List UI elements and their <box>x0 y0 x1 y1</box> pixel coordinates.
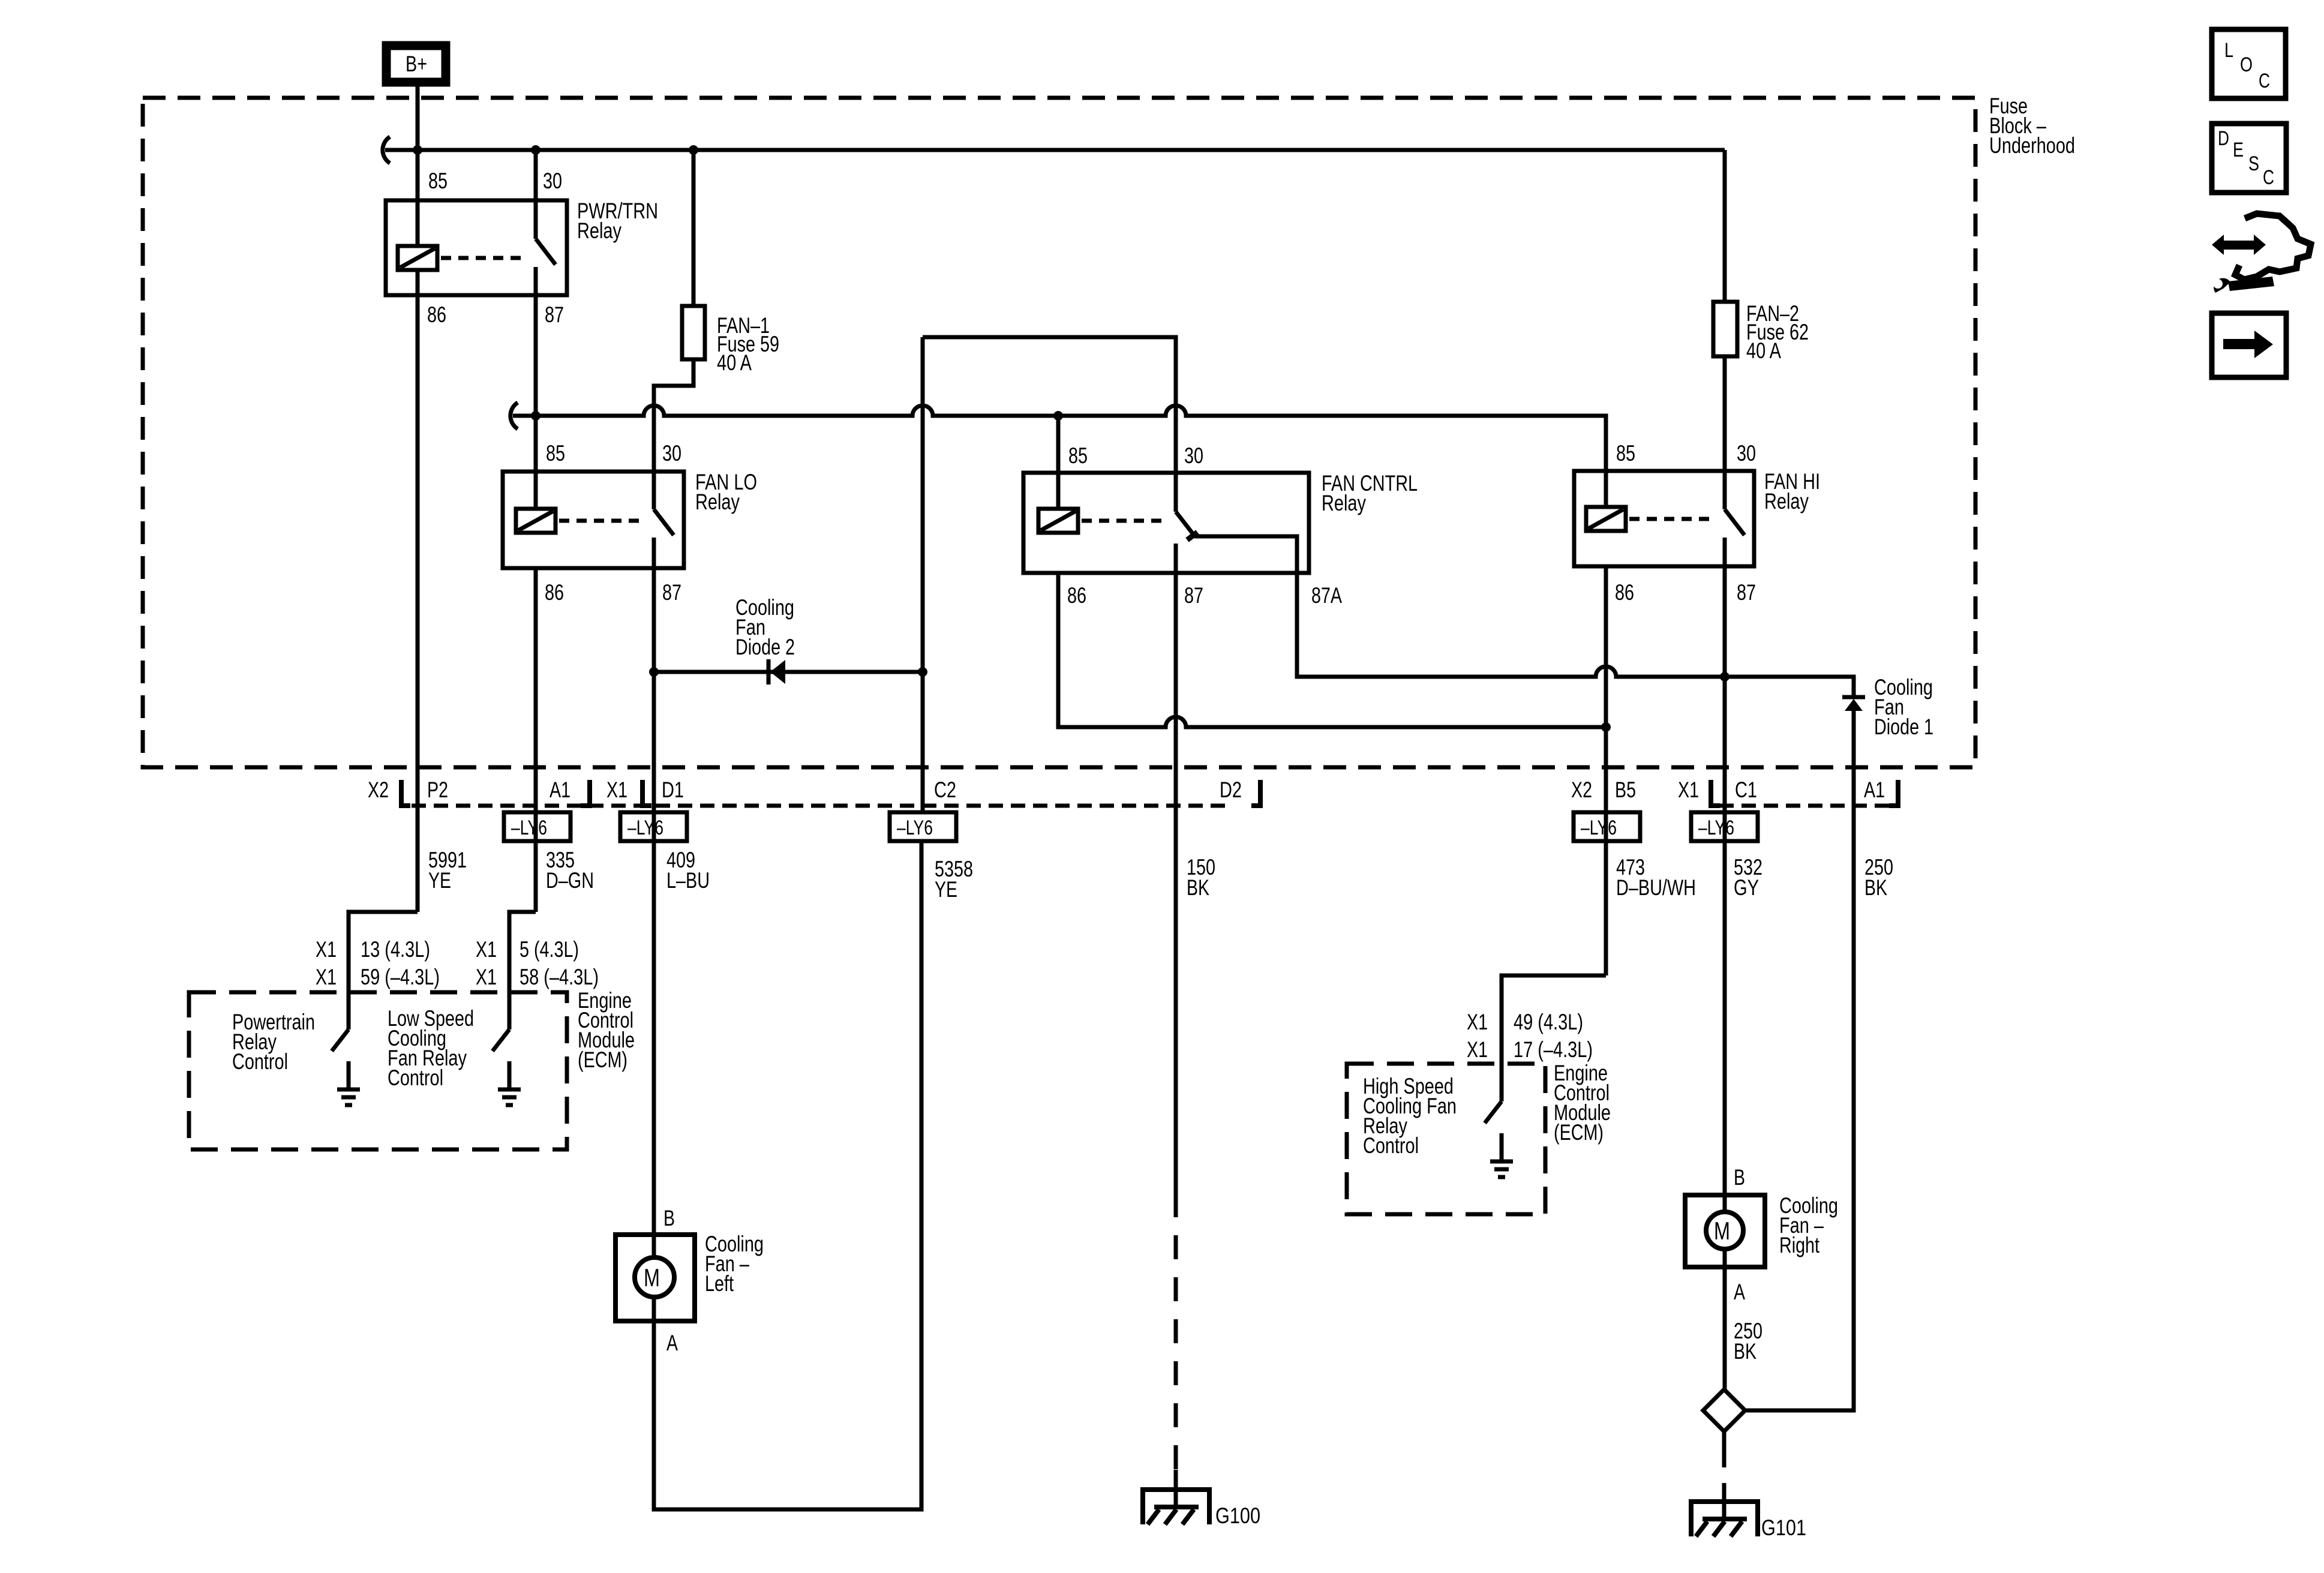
svg-text:A1: A1 <box>1864 778 1885 802</box>
fuse FAN-1 Fuse 59 40A body <box>682 306 705 359</box>
Low Speed Cooling Fan Relay Control label <box>388 1006 474 1090</box>
node bus1/PWR-TRN 30 junction <box>531 145 541 155</box>
svg-text:Control: Control <box>388 1065 443 1090</box>
PWR/TRN Relay name label <box>577 199 658 243</box>
icon diagnostic car with arrow and wrench <box>2212 214 2311 293</box>
node bus2/FAN LO 85 junction <box>531 411 541 421</box>
Engine Control Module (ECM) label right <box>1554 1061 1611 1145</box>
B+ battery feed box <box>386 46 446 82</box>
svg-text:85: 85 <box>546 441 565 466</box>
wire inside right motor box <box>1723 1195 1727 1267</box>
wire FAN CNTRL 87A contact to diode 1 (via right drop) <box>1194 536 1854 695</box>
PWR/TRN relay coil <box>398 246 437 270</box>
powertrain relay control switch blade <box>332 1029 349 1051</box>
FAN LO coil-to-switch dashed actuator <box>559 519 646 523</box>
svg-text:17 (–4.3L): 17 (–4.3L) <box>1514 1037 1593 1062</box>
icon LOC box <box>2212 29 2286 98</box>
ground (low speed fan relay control) <box>498 1089 521 1105</box>
wire PWR/TRN pin87 lower stub <box>534 267 538 295</box>
node FAN HI 87 / 87A-diode1 line junction <box>1720 672 1730 682</box>
svg-text:Left: Left <box>705 1271 734 1296</box>
svg-text:Relay: Relay <box>1764 489 1809 514</box>
wire splice stub <box>1722 1431 1727 1442</box>
svg-text:86: 86 <box>1615 580 1634 605</box>
FAN LO Relay name label <box>695 470 757 514</box>
svg-text:X1: X1 <box>316 937 337 962</box>
svg-text:A: A <box>666 1331 678 1355</box>
motor M1 circle <box>635 1257 674 1297</box>
relay K3 FAN HI Relay box <box>1574 471 1754 566</box>
icon DESC box <box>2212 124 2286 193</box>
wire FAN HI pin87 lower stub <box>1723 538 1727 566</box>
wire 150 BK dashed part to G100 <box>1174 1193 1178 1471</box>
svg-text:BK: BK <box>1187 875 1209 900</box>
svg-text:L: L <box>2224 39 2233 62</box>
svg-text:Relay: Relay <box>1322 491 1366 515</box>
FAN CNTRL switch blade <box>1176 512 1194 536</box>
wire FAN CNTRL pin85 from bus2 into coil <box>1056 416 1061 509</box>
fuse FAN-2 label <box>1746 301 1809 363</box>
fuse FAN-2 Fuse 62 40A body <box>1713 302 1737 356</box>
Cooling Fan Diode 2 label <box>735 595 795 659</box>
bus2 off-page break symbol <box>511 403 518 429</box>
PWR/TRN coil-to-switch dashed actuator <box>441 256 528 260</box>
wire FAN HI pin87 down to Cooling Fan Right (532 GY) <box>1723 566 1727 1195</box>
svg-text:D–GN: D–GN <box>546 868 594 893</box>
PWR/TRN switch blade <box>536 239 556 265</box>
wire FAN LO pin87 lower stub <box>652 538 656 568</box>
wire stub into G101 <box>1722 1483 1727 1520</box>
svg-text:–LY6: –LY6 <box>1581 816 1617 839</box>
svg-text:C: C <box>2259 70 2270 92</box>
powertrain control ground stub <box>347 1061 351 1089</box>
svg-text:–LY6: –LY6 <box>627 816 663 839</box>
wire FAN LO pin85 into coil <box>534 472 538 509</box>
svg-text:S: S <box>2248 152 2259 175</box>
svg-text:B5: B5 <box>1615 778 1636 802</box>
wire label 5358 YE <box>935 857 973 902</box>
svg-text:30: 30 <box>662 441 681 466</box>
wire FAN LO pin87 down to Cooling Fan Left (409 L-BU) <box>652 568 656 1235</box>
connector bracket A1 right <box>1889 780 1898 806</box>
low speed control switch blade <box>493 1029 509 1051</box>
svg-text:O: O <box>2240 53 2253 76</box>
svg-text:YE: YE <box>935 877 957 902</box>
relay K2 FAN CNTRL Relay box <box>1023 473 1309 573</box>
ground (high speed fan relay control) <box>1490 1161 1513 1177</box>
Fuse Block - Underhood dashed box <box>143 98 1975 767</box>
wire FAN-2 fuse to FAN HI 30 <box>1723 356 1727 471</box>
connector bracket X1/C1 <box>1711 780 1720 806</box>
node bus2/FAN CNTRL 85 junction <box>1053 411 1063 421</box>
wire 335 D-GN jog to Low Speed control <box>509 912 536 1029</box>
Cooling Fan Left label <box>705 1232 764 1296</box>
FAN LO switch blade <box>654 509 674 535</box>
wire dashed to G101 <box>1722 1442 1727 1484</box>
wire FAN HI pin85 into coil <box>1604 471 1608 507</box>
wire FAN-1 fuse to FAN LO 30 with jog <box>654 359 693 472</box>
svg-text:GY: GY <box>1734 875 1759 900</box>
svg-text:Right: Right <box>1779 1233 1820 1257</box>
svg-text:87: 87 <box>1737 580 1756 605</box>
FAN HI switch blade <box>1725 509 1744 535</box>
svg-text:85: 85 <box>1068 443 1088 468</box>
svg-text:–LY6: –LY6 <box>1698 816 1734 839</box>
svg-text:87: 87 <box>1184 583 1203 608</box>
FAN CNTRL Relay name label <box>1322 471 1418 515</box>
icon forward arrow box <box>2212 313 2286 377</box>
svg-text:B: B <box>1734 1165 1745 1190</box>
wire 150 BK stub into G100 <box>1174 1470 1178 1508</box>
wire FAN-2 feed from bus1 <box>1723 150 1727 302</box>
ECM dashed box (low speed) <box>189 992 567 1149</box>
wire FAN HI 86 jog to high speed control switch <box>1502 975 1606 1101</box>
svg-text:BK: BK <box>1864 875 1887 900</box>
wire PWR/TRN pin86 coil to ECM (5991 YE) upper part <box>416 270 420 912</box>
wire FAN CNTRL pin87 lower stub down to D2 (150 BK) <box>1174 544 1178 1193</box>
svg-text:X1: X1 <box>476 965 497 989</box>
svg-text:A: A <box>1734 1280 1745 1304</box>
wire label 473 D-BU/WH <box>1616 855 1696 900</box>
svg-text:A1: A1 <box>550 778 571 802</box>
svg-text:X1: X1 <box>1467 1010 1488 1034</box>
wire FAN LO pin30 stub <box>652 472 656 509</box>
svg-text:D1: D1 <box>662 778 684 802</box>
ECM dashed box (high speed) <box>1347 1064 1545 1214</box>
node bus1/B+ junction <box>413 145 422 155</box>
svg-text:59 (–4.3L): 59 (–4.3L) <box>361 965 440 989</box>
motor M2 circle <box>1706 1212 1743 1249</box>
Cooling Fan Diode 1 symbol <box>1842 697 1865 711</box>
wire B+ down to bus1 <box>416 86 420 150</box>
Engine Control Module (ECM) label left <box>578 988 635 1072</box>
FAN CNTRL coil-to-switch dashed actuator <box>1082 519 1169 523</box>
high speed control ground stub <box>1500 1133 1504 1161</box>
Fuse Block - Underhood label <box>1989 94 2075 158</box>
svg-text:86: 86 <box>427 302 446 327</box>
svg-text:M: M <box>644 1263 660 1292</box>
svg-text:30: 30 <box>543 169 562 193</box>
FAN CNTRL switch blade contact tick <box>1187 532 1197 540</box>
svg-text:D2: D2 <box>1220 778 1242 802</box>
svg-text:C2: C2 <box>934 778 956 802</box>
wire PWR/TRN pin85 from bus1 into coil <box>416 150 420 246</box>
Powertrain Relay Control label <box>232 1010 315 1074</box>
fuse FAN-1 label <box>717 313 779 375</box>
svg-text:40 A: 40 A <box>717 350 752 375</box>
svg-text:C: C <box>2263 166 2274 189</box>
svg-text:D: D <box>2218 127 2229 150</box>
svg-text:58 (–4.3L): 58 (–4.3L) <box>520 965 599 989</box>
harness code box -LY6 (A1/335) <box>504 812 571 841</box>
motor M1 Cooling Fan Left box <box>615 1235 695 1321</box>
svg-text:–LY6: –LY6 <box>511 816 547 839</box>
ground G100 symbol <box>1143 1490 1209 1524</box>
wire FAN LO pin86 down to ECM (335 D-GN) <box>534 568 538 912</box>
fuse FAN-1 wire from bus1 <box>692 150 696 306</box>
svg-text:87A: 87A <box>1311 583 1342 608</box>
svg-text:(ECM): (ECM) <box>578 1047 627 1072</box>
Cooling Fan Diode 1 label <box>1874 675 1933 739</box>
wire right fan A down to splice <box>1723 1267 1727 1389</box>
FAN HI Relay name label <box>1764 469 1820 514</box>
high speed control switch blade <box>1485 1101 1502 1123</box>
FAN LO relay coil <box>516 509 556 533</box>
node FAN LO 87 / diode 2 junction <box>649 667 659 677</box>
harness code box -LY6 (C1/532) <box>1691 812 1758 841</box>
svg-text:X1: X1 <box>1678 778 1699 802</box>
connector bracket A1 <box>581 780 590 806</box>
wire PWR/TRN pin30 stub <box>534 150 538 239</box>
ground G101 symbol <box>1691 1502 1758 1536</box>
svg-text:Diode 2: Diode 2 <box>735 635 795 659</box>
Cooling Fan Right label <box>1779 1193 1838 1257</box>
svg-text:B: B <box>663 1206 675 1230</box>
wire loop top to FAN CNTRL 30 <box>923 337 1176 473</box>
wire left fan A to 5358 YE return <box>654 841 921 1509</box>
Cooling Fan Diode 2 symbol <box>768 659 785 685</box>
wire label 335 D-GN <box>546 848 594 893</box>
splice diamond <box>1703 1389 1745 1431</box>
svg-text:B+: B+ <box>406 52 427 76</box>
FAN HI coil-to-switch dashed actuator <box>1629 517 1716 521</box>
Cooling Fan Diode 2 wire <box>654 670 923 674</box>
svg-text:86: 86 <box>1067 583 1086 608</box>
FAN HI relay coil <box>1586 507 1626 531</box>
harness code box -LY6 (D1/409) <box>620 812 687 841</box>
FAN CNTRL relay coil <box>1038 509 1078 533</box>
svg-text:X1: X1 <box>1467 1037 1488 1062</box>
wire label 532 GY <box>1734 855 1762 900</box>
svg-text:BK: BK <box>1734 1339 1756 1364</box>
node FAN CNTRL 86 line / FAN HI 86 junction <box>1601 722 1611 732</box>
wire label 250 BK (right fan A) <box>1734 1319 1762 1364</box>
svg-text:E: E <box>2233 139 2244 161</box>
svg-text:86: 86 <box>545 580 564 605</box>
svg-text:X1: X1 <box>606 778 627 802</box>
svg-text:30: 30 <box>1737 441 1756 466</box>
svg-text:(ECM): (ECM) <box>1554 1120 1604 1145</box>
wire diode 1 down to splice (250 BK) <box>1746 711 1854 1410</box>
wire inside left motor box <box>652 1235 656 1321</box>
wire label 150 BK <box>1187 855 1215 900</box>
svg-text:X1: X1 <box>316 965 337 989</box>
svg-text:85: 85 <box>428 169 448 193</box>
wire label 250 BK (A1) <box>1864 855 1893 900</box>
wire PWR/TRN pin87 down to bus2 and on to FAN LO 85 <box>534 295 538 472</box>
svg-text:87: 87 <box>545 302 564 327</box>
svg-text:30: 30 <box>1184 443 1203 468</box>
svg-text:Control: Control <box>1363 1133 1419 1158</box>
connector row dashed line segment B <box>1719 804 1890 808</box>
svg-text:Relay: Relay <box>577 218 621 243</box>
wire 5358 YE down from diode2 junction to C2 connector <box>921 672 925 812</box>
wire FAN CNTRL pin86 down and right to FAN HI 86 node <box>1058 573 1606 727</box>
bus1 B+ feed rail <box>383 137 1725 163</box>
bus2 relay feed rail with hops <box>511 403 1606 471</box>
wire label 409 L-BU <box>666 848 710 893</box>
svg-text:87: 87 <box>662 580 681 605</box>
low speed control ground stub <box>508 1061 512 1089</box>
relay U1 PWR/TRN Relay box <box>386 200 567 295</box>
wire FAN CNTRL pin30 stub <box>1174 473 1178 512</box>
svg-text:Underhood: Underhood <box>1989 133 2075 158</box>
relay K1 FAN LO Relay box <box>503 472 684 568</box>
svg-text:40 A: 40 A <box>1746 338 1781 363</box>
svg-text:X1: X1 <box>476 937 497 962</box>
svg-text:X2: X2 <box>1571 778 1592 802</box>
svg-text:13 (4.3L): 13 (4.3L) <box>361 937 430 962</box>
svg-text:85: 85 <box>1616 441 1635 466</box>
svg-text:X2: X2 <box>368 778 389 802</box>
wire 150 BK solid part below D2 <box>1174 841 1178 1193</box>
wire 5991 YE jog to Powertrain Relay Control <box>349 912 418 1029</box>
wire 5358 YE vertical C2 run (diode2 up through bus2 hop to loop top) <box>921 337 925 672</box>
node diode 2 / 5358 YE wire junction <box>918 667 927 677</box>
svg-text:L–BU: L–BU <box>666 868 710 893</box>
connector bracket X1/D1 <box>642 780 651 806</box>
svg-text:G101: G101 <box>1761 1515 1806 1540</box>
svg-text:D–BU/WH: D–BU/WH <box>1616 875 1696 900</box>
svg-text:YE: YE <box>428 868 451 893</box>
connector bracket X2/P2 <box>401 780 410 806</box>
High Speed Cooling Fan Relay Control label <box>1363 1074 1457 1158</box>
svg-text:C1: C1 <box>1735 778 1757 802</box>
svg-text:49 (4.3L): 49 (4.3L) <box>1514 1010 1583 1034</box>
connector row dashed line segment A <box>412 804 1225 808</box>
svg-text:P2: P2 <box>427 778 448 802</box>
wire FAN HI pin86 down to ECM B5 (473 D-BU/WH) upper part <box>1604 566 1608 975</box>
connector bracket D2 <box>1251 780 1260 806</box>
svg-text:M: M <box>1714 1217 1730 1245</box>
harness code box -LY6 (B5/473) <box>1574 812 1640 841</box>
svg-text:5 (4.3L): 5 (4.3L) <box>520 937 579 962</box>
wire label 5991 YE <box>428 848 467 893</box>
svg-text:Control: Control <box>232 1049 288 1074</box>
svg-text:–LY6: –LY6 <box>897 816 933 839</box>
bus1 off-page break symbol <box>383 137 390 163</box>
motor M2 Cooling Fan Right box <box>1685 1195 1765 1267</box>
node bus1/FAN-1 fuse junction <box>689 145 698 155</box>
ground (powertrain relay control) <box>337 1089 360 1105</box>
svg-text:Relay: Relay <box>695 490 740 514</box>
svg-text:Diode 1: Diode 1 <box>1874 715 1933 739</box>
svg-text:G100: G100 <box>1215 1503 1260 1528</box>
wire FAN HI pin30 stub <box>1723 471 1727 509</box>
harness code box -LY6 (C2/5358) <box>890 812 956 841</box>
